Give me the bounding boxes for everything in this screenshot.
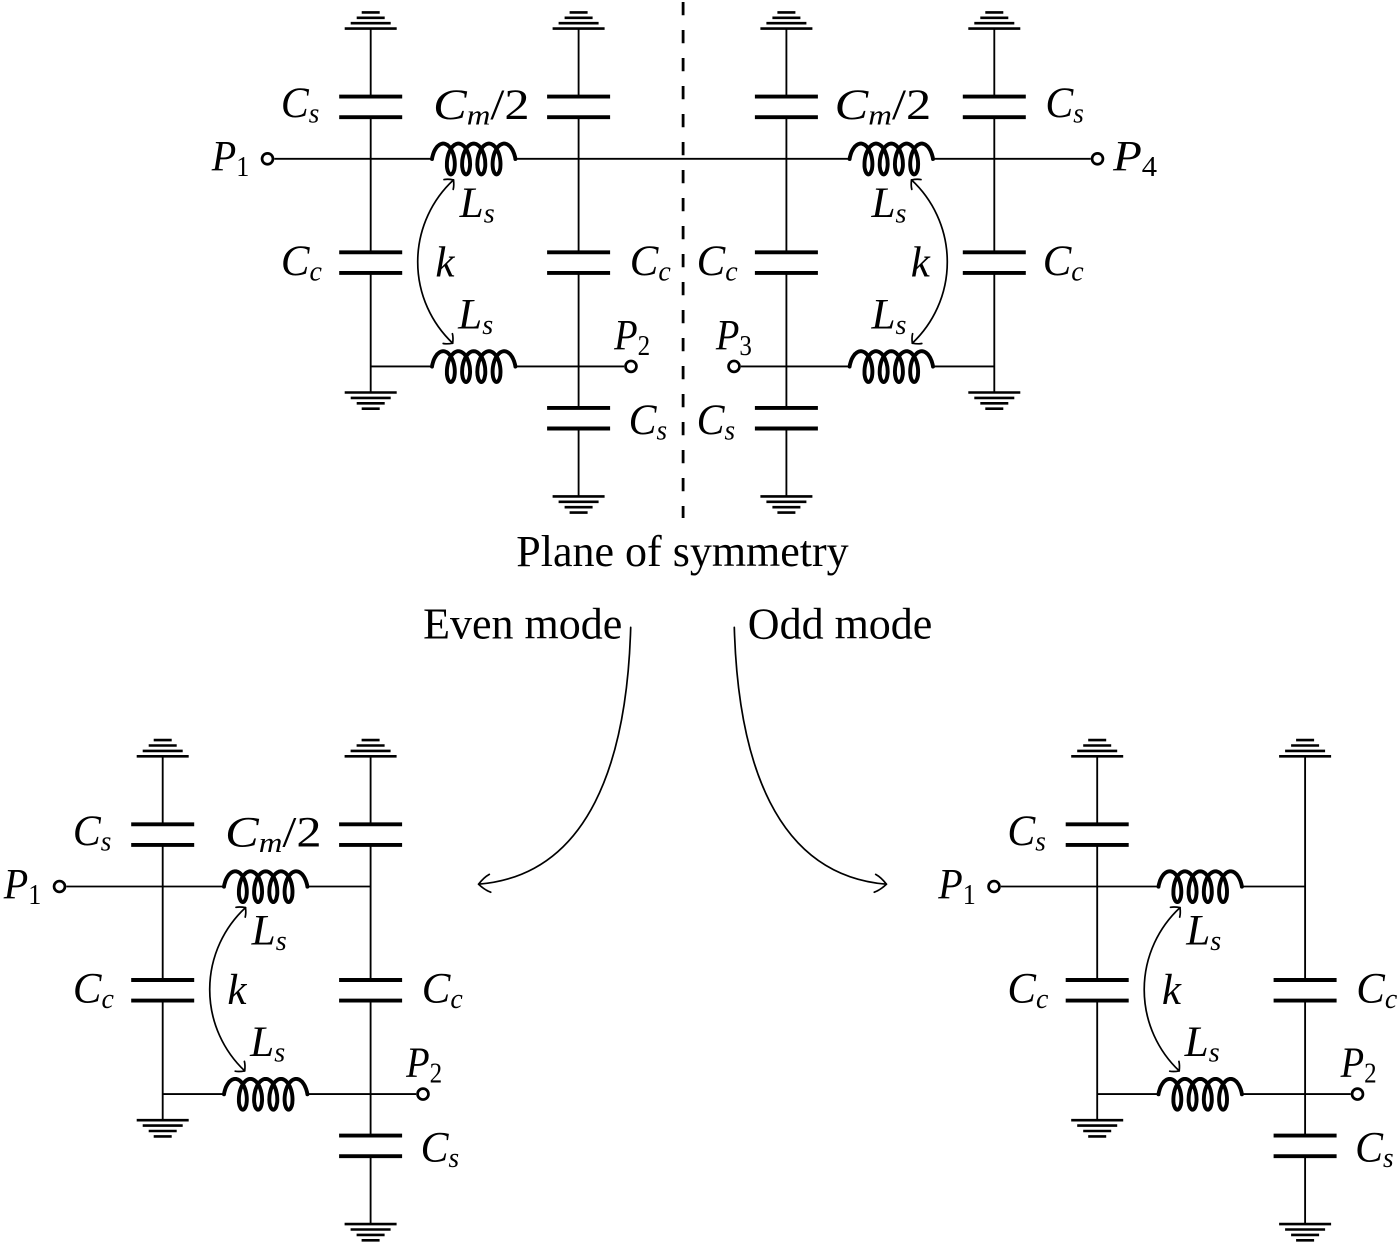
capacitor Cm/2 (top-right) (755, 97, 818, 118)
inductor Ls (even mode, shunt) (224, 1079, 307, 1110)
wire (branch B below main wire, top-right) (785, 159, 787, 253)
wire (branch A to main wire, even-mode) (162, 845, 164, 887)
wire (lower wire to P2, odd mode) (1242, 1093, 1351, 1095)
port P2 (626, 361, 637, 372)
wire (branch B lower stem, top-left) (578, 273, 580, 408)
wire (coil to branch B, odd mode) (1242, 886, 1305, 888)
capacitor Cs (even-mode) (339, 1136, 402, 1157)
capacitor Cc (top-right) (755, 252, 818, 273)
wire (branch A to main wire, top-right) (993, 117, 995, 159)
ground (bottom of branch B, even-mode) (345, 1224, 397, 1240)
port P1 (odd mode) (989, 881, 1000, 892)
wire (branch B lower stem, even-mode) (370, 1001, 372, 1136)
ground (top of branch A, top-right) (968, 12, 1020, 28)
wire (branch A below main wire, top-right) (993, 159, 995, 253)
svg-text:k: k (227, 967, 247, 1014)
port P3 (729, 361, 740, 372)
wire (branch B upper stem, even-mode) (370, 756, 372, 824)
wire (branch B to ground, odd-mode) (1304, 1156, 1306, 1224)
capacitor Cs (top-right) (755, 408, 818, 429)
coupling arrow k (top-right) (911, 179, 947, 344)
wire (branch B to ground, even-mode) (370, 1156, 372, 1224)
ground (bottom of branch A, odd-mode) (1071, 1120, 1123, 1136)
wire (lower wire, coil to P2) (515, 365, 624, 367)
coupling arrow k (top-left) (418, 179, 454, 344)
wire (branch B below main wire, top-left) (578, 159, 580, 253)
arrow to odd-mode circuit (734, 627, 886, 884)
capacitor Cs (top-right) (963, 97, 1026, 118)
inductor Ls (even mode, series) (224, 871, 307, 902)
inductor Ls (top-left, shunt branch) (432, 351, 515, 382)
ground (bottom of branch B, top-left) (553, 496, 605, 512)
coupling arrow k (odd mode) (1144, 907, 1180, 1072)
ground (bottom of branch B, odd-mode) (1279, 1224, 1331, 1240)
inductor Ls (top-right, shunt branch) (850, 351, 933, 382)
wire (branch B lower stem, odd-mode) (1304, 1001, 1306, 1136)
ground (bottom of branch A, even-mode) (137, 1120, 189, 1136)
wire (coil to branch B, even mode) (307, 886, 370, 888)
port P2 (odd mode) (1352, 1089, 1363, 1100)
capacitor Cc (top-right) (963, 252, 1026, 273)
port P1 (262, 153, 273, 164)
wire (right coil to P4) (933, 158, 1091, 160)
wire (branch A to main wire, odd-mode) (1096, 845, 1098, 887)
wire (branch B to ground, top-right) (785, 429, 787, 497)
capacitor Cc (top-left) (339, 252, 402, 273)
wire (branch A below main wire, odd-mode) (1096, 887, 1098, 981)
wire (lower wire, coil to branch A, top-right) (933, 365, 994, 367)
inductor Ls (top-left, series) (432, 144, 515, 175)
capacitor Cs (odd-mode) (1066, 824, 1129, 845)
wire (branch B below main wire, odd-mode) (1304, 887, 1306, 981)
inductor Ls (odd mode, series) (1159, 871, 1242, 902)
ground (bottom of branch A, top-right) (968, 393, 1020, 409)
ground (top of branch A, odd-mode) (1071, 740, 1123, 756)
svg-text:k: k (1162, 967, 1182, 1014)
capacitor Cc (even-mode) (339, 980, 402, 1001)
wire (branch A upper stem, odd-mode) (1096, 756, 1098, 824)
wire (branch B to main wire, top-right) (785, 117, 787, 159)
ground (top of branch B, top-right) (760, 12, 812, 28)
capacitor Cc (odd-mode) (1274, 980, 1337, 1001)
wire (branch A upper stem, even-mode) (162, 756, 164, 824)
wire (branch A lower stem, top-left) (370, 273, 372, 393)
port P2 (even mode) (418, 1089, 429, 1100)
ground (top of branch A, even-mode) (137, 740, 189, 756)
wire (branch A below main wire, top-left) (370, 159, 372, 253)
wire (left coil to right coil across symmetry plane) (515, 158, 849, 160)
svg-text:k: k (435, 240, 455, 287)
capacitor Cs (even-mode) (131, 824, 194, 845)
port P4 (1092, 153, 1103, 164)
wire (branch B to ground, top-left) (578, 429, 580, 497)
svg-text:Odd mode: Odd mode (748, 600, 933, 649)
wire (lower wire left, even mode) (163, 1093, 224, 1095)
wire (lower wire left, odd mode) (1097, 1093, 1158, 1095)
wire (branch A below main wire, even-mode) (162, 887, 164, 981)
wire (P1 to coil, even mode) (66, 886, 224, 888)
wire (branch A lower stem, even-mode) (162, 1001, 164, 1121)
inductor Ls (odd mode, shunt) (1159, 1079, 1242, 1110)
wire (branch B direct to main wire, odd-mode) (1304, 756, 1306, 886)
coupling arrow k (even mode) (210, 907, 246, 1072)
capacitor Cc (top-left) (547, 252, 610, 273)
wire (branch A to main wire, top-left) (370, 117, 372, 159)
wire (branch A upper stem, top-right) (993, 29, 995, 97)
ground (top of branch B, odd-mode) (1279, 740, 1331, 756)
wire (branch B upper stem, top-right) (785, 29, 787, 97)
port P1 (even mode) (54, 881, 65, 892)
wire (lower wire to P2, even mode) (307, 1093, 416, 1095)
wire (branch A lower stem, top-right) (993, 273, 995, 393)
wire (P1 to left coil) (274, 158, 432, 160)
ground (top of branch B, top-left) (553, 12, 605, 28)
arrow to even-mode circuit (479, 627, 631, 884)
inductor Ls (top-right, series) (850, 144, 933, 175)
wire (branch B lower stem, top-right) (785, 273, 787, 408)
ground (bottom of branch B, top-right) (760, 496, 812, 512)
capacitor Cs (odd-mode) (1274, 1136, 1337, 1157)
ground (bottom of branch A, top-left) (345, 393, 397, 409)
svg-text:Plane of symmetry: Plane of symmetry (516, 527, 848, 576)
wire (branch A upper stem, top-left) (370, 29, 372, 97)
wire (branch B below main wire, even-mode) (370, 887, 372, 981)
wire (branch B to main wire, even-mode) (370, 845, 372, 887)
ground (top of branch A, top-left) (345, 12, 397, 28)
capacitor Cm/2 (top-left) (547, 97, 610, 118)
ground (top of branch B, even-mode) (345, 740, 397, 756)
svg-text:Even mode: Even mode (423, 600, 622, 649)
wire (branch B to main wire, top-left) (578, 117, 580, 159)
wire (P1 to coil, odd mode) (1001, 886, 1159, 888)
capacitor Cm/2 (even-mode) (339, 824, 402, 845)
wire (branch B upper stem, top-left) (578, 29, 580, 97)
wire (lower wire, P3 to coil) (741, 365, 850, 367)
capacitor Cc (odd-mode) (1066, 980, 1129, 1001)
wire (lower wire, branch A to coil, top-left) (371, 365, 432, 367)
capacitor Cc (even-mode) (131, 980, 194, 1001)
capacitor Cs (top-left) (547, 408, 610, 429)
wire (branch A lower stem, odd-mode) (1096, 1001, 1098, 1121)
svg-text:k: k (911, 240, 931, 287)
capacitor Cs (top-left) (339, 97, 402, 118)
plane of symmetry dashed line (682, 2, 685, 518)
